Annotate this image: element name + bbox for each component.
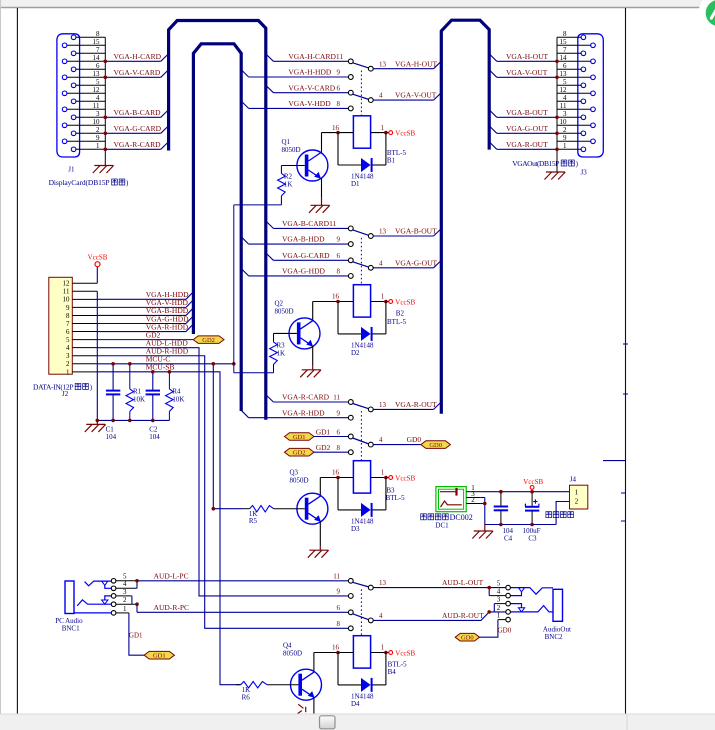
svg-text:8: 8 xyxy=(337,620,341,628)
wire VGA-H-HDD from J2 to bus xyxy=(97,290,193,299)
bottom horizontal scrollbar xyxy=(0,714,715,730)
svg-text:8: 8 xyxy=(563,30,567,38)
switch arm H xyxy=(353,63,369,68)
svg-text:8: 8 xyxy=(337,100,341,108)
resistor R3 1K xyxy=(270,333,285,372)
svg-text:6: 6 xyxy=(337,252,341,260)
switch arm R xyxy=(353,404,369,409)
svg-text:1: 1 xyxy=(381,644,385,652)
wire VGA-G-OUT to J3 xyxy=(489,124,557,133)
svg-text:1: 1 xyxy=(381,293,385,301)
wire Q4 emitter xyxy=(313,697,315,714)
wire transistor drive vertical xyxy=(233,205,235,373)
svg-text:10: 10 xyxy=(93,118,101,126)
svg-text:11: 11 xyxy=(333,394,340,402)
power flag GD1 xyxy=(285,433,315,441)
relay coil BTL-5 B2 xyxy=(313,285,407,326)
svg-text:AUD-R-OUT: AUD-R-OUT xyxy=(442,611,484,620)
power flag GD1 at BNC1 xyxy=(144,651,174,659)
svg-text:R3: R3 xyxy=(277,342,286,350)
wire AUD-R-HDD from J2 pin3 down to audio switch xyxy=(97,347,348,629)
ground xyxy=(545,171,566,180)
svg-text:VGA-H-HDD: VGA-H-HDD xyxy=(288,68,331,77)
capacitor C1 104 xyxy=(106,364,121,441)
svg-text:VGAOut(DB15P: VGAOut(DB15P xyxy=(512,159,559,168)
svg-text:4: 4 xyxy=(379,612,383,620)
wire AUD-L-HDD from J2 pin4 down to audio switch xyxy=(97,338,348,595)
svg-text:R5: R5 xyxy=(249,517,258,525)
svg-text:DC1: DC1 xyxy=(435,521,449,529)
svg-text:DisplayCard(DB15P: DisplayCard(DB15P xyxy=(49,178,110,187)
svg-text:8: 8 xyxy=(96,30,100,38)
svg-text:3: 3 xyxy=(563,110,567,118)
svg-text:2: 2 xyxy=(96,126,100,134)
svg-text:7: 7 xyxy=(563,46,567,54)
svg-text:5: 5 xyxy=(497,580,501,588)
svg-text:1: 1 xyxy=(96,142,100,150)
junction on J1 ground line row VGA-H-CARD xyxy=(104,60,108,64)
wire BNC1 sleeve to GD1 flag xyxy=(129,613,144,655)
svg-text:1: 1 xyxy=(66,368,70,376)
svg-text:3: 3 xyxy=(497,596,501,604)
svg-text:VGA-B-OUT: VGA-B-OUT xyxy=(506,108,548,117)
svg-text:8050D: 8050D xyxy=(282,146,301,154)
svg-text:1K: 1K xyxy=(284,181,293,189)
junction at J3 row VGA-V-OUT xyxy=(555,76,559,80)
wire Q2 base xyxy=(274,332,297,334)
svg-text:2: 2 xyxy=(471,496,475,504)
svg-text:3: 3 xyxy=(123,588,127,596)
wire VGA-R-OUT to J3 xyxy=(489,140,557,149)
label AudioOut BNC2 xyxy=(543,626,571,642)
power flag GD0 at BNC2 xyxy=(455,633,479,641)
svg-text:VGA-V-HDD: VGA-V-HDD xyxy=(288,99,331,108)
svg-text:VccSB: VccSB xyxy=(523,478,543,486)
svg-text:B4: B4 xyxy=(388,668,397,676)
svg-text:7: 7 xyxy=(96,46,100,54)
capacitor C3 100uF polarized xyxy=(523,492,541,543)
svg-text:3: 3 xyxy=(96,110,100,118)
svg-text:2: 2 xyxy=(575,498,579,506)
wire J2 pin11 to ground rail xyxy=(96,291,98,420)
sheet right border xyxy=(625,8,627,714)
svg-text:13: 13 xyxy=(379,579,387,587)
svg-text:VGA-H-CARD: VGA-H-CARD xyxy=(114,52,162,61)
svg-text:1: 1 xyxy=(575,489,579,497)
svg-text:J1: J1 xyxy=(68,165,75,173)
wire Q2 emitter xyxy=(312,346,314,366)
wire VGA-H-HDD 9 input xyxy=(241,68,353,80)
svg-text:5: 5 xyxy=(66,336,70,344)
svg-text:VGA-H-OUT: VGA-H-OUT xyxy=(395,59,437,68)
switch arm audio L xyxy=(353,582,369,587)
svg-text:2: 2 xyxy=(66,360,70,368)
junction relay B3 pin1 xyxy=(384,476,388,480)
svg-text:5: 5 xyxy=(96,78,100,86)
ground xyxy=(93,162,114,174)
label PC Audio BNC1 xyxy=(55,617,83,633)
mechanical link dotted xyxy=(360,71,362,116)
mechanical link dotted xyxy=(360,589,362,635)
svg-text:Q3: Q3 xyxy=(290,469,299,477)
svg-text:GD0: GD0 xyxy=(407,435,422,444)
wire VGA-V-HDD from J2 to bus xyxy=(97,298,193,307)
wire AUD-R-HDD input 8 xyxy=(337,620,354,631)
junction at J3 row VGA-G-OUT xyxy=(555,132,559,136)
svg-text:9: 9 xyxy=(337,69,341,77)
svg-text:9: 9 xyxy=(563,134,567,142)
bus from J1 VGA-CARD signals (left loop) xyxy=(169,21,266,420)
svg-text:1: 1 xyxy=(497,612,501,620)
wire Q1 base xyxy=(281,165,304,167)
switch output 4 AUD-R-OUT xyxy=(368,611,505,623)
svg-text:Q2: Q2 xyxy=(275,300,284,308)
svg-text:AUD-L-PC: AUD-L-PC xyxy=(154,571,189,580)
wire tick marks at sheet edge xyxy=(621,344,628,521)
svg-text:VGA-V-CARD: VGA-V-CARD xyxy=(288,83,335,92)
junction BNC2 R xyxy=(487,610,491,614)
junction C3 top xyxy=(530,490,534,494)
svg-text:B1: B1 xyxy=(387,157,396,165)
svg-text:VGA-R-OUT: VGA-R-OUT xyxy=(506,140,548,149)
svg-text:8: 8 xyxy=(337,268,341,276)
wire VccSB rail from DC1 pin1 to J4 xyxy=(480,491,569,493)
wire GD2 8 input xyxy=(314,443,353,455)
label DC1 xyxy=(421,513,473,530)
switch output 13 VGA-B-OUT xyxy=(368,227,441,239)
wire VGA-G-CARD 6 input xyxy=(266,251,353,263)
wire VGA-V-HDD 8 input xyxy=(241,99,353,111)
junction C4 bottom xyxy=(499,523,503,527)
power port VccSB at relay B1 xyxy=(389,131,393,135)
resistor R6 1K xyxy=(236,682,298,702)
wire VGA-R-HDD 9 input xyxy=(241,408,353,420)
svg-text:10: 10 xyxy=(63,296,71,304)
svg-text:VGA-V-OUT: VGA-V-OUT xyxy=(506,68,548,77)
svg-text:4: 4 xyxy=(379,259,383,267)
svg-text:B2: B2 xyxy=(396,310,405,318)
svg-text:R4: R4 xyxy=(172,388,181,396)
relay coil BTL-5 B1 xyxy=(322,116,407,165)
svg-text:8050D: 8050D xyxy=(290,477,309,485)
ground xyxy=(308,546,329,558)
wire VGA-B-CARD from J1 xyxy=(105,108,168,117)
switch arm audio R xyxy=(353,614,369,620)
svg-text:15: 15 xyxy=(560,38,568,46)
svg-text:VGA-V-OUT: VGA-V-OUT xyxy=(395,91,437,100)
svg-text:VGA-R-CARD: VGA-R-CARD xyxy=(282,393,330,402)
svg-text:1: 1 xyxy=(563,142,567,150)
svg-text:13: 13 xyxy=(379,228,387,236)
svg-text:14: 14 xyxy=(560,54,568,62)
svg-text:15: 15 xyxy=(93,38,101,46)
svg-text:9: 9 xyxy=(337,588,341,596)
ground xyxy=(300,366,321,378)
label DisplayCard(DB15P) xyxy=(49,178,129,187)
svg-text:C3: C3 xyxy=(528,535,537,543)
svg-text:AUD-L-OUT: AUD-L-OUT xyxy=(442,578,484,587)
wire ground rail under C1 R1 C2 R4 xyxy=(97,419,169,421)
junction BNC1 R xyxy=(135,602,139,606)
svg-text:VGA-G-CARD: VGA-G-CARD xyxy=(114,124,162,133)
junction relay B1 pin16 xyxy=(336,131,340,135)
svg-text:12: 12 xyxy=(560,86,568,94)
label J2 / DATA-IN(12P) xyxy=(33,383,93,399)
label J4 xyxy=(546,475,577,517)
connector J4 power header xyxy=(570,485,588,509)
junction rail C1 xyxy=(111,419,115,423)
svg-text:VGA-G-OUT: VGA-G-OUT xyxy=(395,258,437,267)
svg-text:J4: J4 xyxy=(570,475,577,483)
svg-text:4: 4 xyxy=(497,588,501,596)
junction relay B3 pin16 xyxy=(336,476,340,480)
svg-text:GD2: GD2 xyxy=(202,337,215,344)
wire AUD-L-HDD input 9 xyxy=(337,588,354,599)
switch arm V xyxy=(353,94,369,99)
svg-text:BTL-5: BTL-5 xyxy=(387,318,407,326)
svg-text:6: 6 xyxy=(337,428,341,436)
svg-text:11: 11 xyxy=(93,102,100,110)
svg-text:GD2: GD2 xyxy=(293,450,306,457)
svg-text:Q4: Q4 xyxy=(283,642,292,650)
wire VGA-R-HDD from J2 to bus xyxy=(97,322,193,331)
power port VccSB at J2 pin12 xyxy=(96,266,98,283)
power flag GD2 xyxy=(285,448,315,456)
transistor Q3 8050D xyxy=(290,469,328,525)
svg-text:R1: R1 xyxy=(133,388,142,396)
wire VGA-V-CARD 6 input xyxy=(266,83,353,95)
junction on J1 ground line row VGA-B-CARD xyxy=(104,116,108,120)
svg-text:13: 13 xyxy=(560,70,568,78)
svg-text:GD1: GD1 xyxy=(316,427,331,436)
left pane border xyxy=(0,0,2,714)
svg-text:7: 7 xyxy=(66,320,70,328)
wire R2 to MCU-C line xyxy=(234,204,282,206)
svg-text:VccSB: VccSB xyxy=(395,474,415,482)
junction relay B1 pin1 xyxy=(384,131,388,135)
switch output 4 VGA-G-OUT xyxy=(368,258,441,270)
junction relay B2 pin16 xyxy=(336,300,340,304)
junction MCU-C at R5 xyxy=(212,507,216,511)
svg-text:VGA-H-OUT: VGA-H-OUT xyxy=(506,52,548,61)
mechanical link dotted xyxy=(360,411,362,461)
wire AUD-R-PC input 6 xyxy=(137,603,353,615)
sheet left border xyxy=(16,8,18,714)
svg-text:VccSB: VccSB xyxy=(88,254,108,262)
bus to J3 VGA-OUT signals (right loop) xyxy=(441,20,489,414)
svg-text:9: 9 xyxy=(337,409,341,417)
svg-text:12: 12 xyxy=(93,86,101,94)
junction BNC1 L xyxy=(135,579,139,583)
svg-text:13: 13 xyxy=(93,70,101,78)
wire VGA-H-OUT to J3 xyxy=(489,52,557,61)
application top toolbar edge xyxy=(0,0,715,7)
svg-text:GD2: GD2 xyxy=(316,443,331,452)
svg-text:VccSB: VccSB xyxy=(395,298,415,306)
svg-text:BNC1: BNC1 xyxy=(62,625,80,633)
ground (partially repainted) xyxy=(298,704,306,713)
svg-text:4: 4 xyxy=(96,94,100,102)
junction C1 top xyxy=(111,362,115,366)
svg-text:GD1: GD1 xyxy=(129,631,143,639)
junction at J3 row VGA-R-OUT xyxy=(555,148,559,152)
svg-text:4: 4 xyxy=(563,94,567,102)
wire VGA-G-HDD from J2 to bus xyxy=(97,314,193,323)
svg-text:5: 5 xyxy=(563,78,567,86)
junction MCU-C branch xyxy=(212,362,216,366)
transistor Q1 8050D xyxy=(282,138,328,181)
svg-text:VGA-B-OUT: VGA-B-OUT xyxy=(395,227,437,236)
wire Q3 collector xyxy=(319,478,321,497)
junction on J1 ground line row VGA-G-CARD xyxy=(104,132,108,136)
junction C4 top xyxy=(499,490,503,494)
svg-text:VGA-G-CARD: VGA-G-CARD xyxy=(282,251,330,260)
svg-text:BTL-5: BTL-5 xyxy=(386,494,406,502)
svg-text:13: 13 xyxy=(379,401,387,409)
svg-text:GD0: GD0 xyxy=(429,442,442,449)
wire MCU-C from J2 pin2 xyxy=(97,355,234,364)
svg-text:AUD-R-PC: AUD-R-PC xyxy=(154,603,189,612)
wire VGA-V-OUT to J3 xyxy=(489,68,557,77)
svg-text:R6: R6 xyxy=(242,694,251,702)
junction rail left end xyxy=(96,419,100,423)
svg-text:11: 11 xyxy=(560,102,567,110)
svg-text:14: 14 xyxy=(93,54,101,62)
svg-text:2: 2 xyxy=(123,596,127,604)
svg-text:4: 4 xyxy=(379,92,383,100)
svg-text:D4: D4 xyxy=(351,700,360,708)
wire ground rail xyxy=(485,524,556,526)
svg-text:8050D: 8050D xyxy=(275,308,294,316)
wire Q2 collector xyxy=(312,302,314,322)
power port VccSB at relay B4 xyxy=(389,651,393,655)
svg-text:13: 13 xyxy=(379,60,387,68)
switch output 4 GD0 xyxy=(368,435,421,447)
wire VGA-G-HDD 8 input xyxy=(241,267,353,279)
connector J2 DATA-IN 12P (yellow header) xyxy=(49,277,98,376)
resistor R4 10K xyxy=(166,372,185,421)
connector BNC2 AudioOut jack xyxy=(489,580,562,622)
svg-text:104: 104 xyxy=(149,433,160,441)
svg-text:6: 6 xyxy=(337,604,341,612)
svg-text:8050D: 8050D xyxy=(283,650,302,658)
wire GD2 from J2 pin5 to flag xyxy=(97,330,193,339)
green status badge overlay xyxy=(699,0,715,34)
svg-text:10: 10 xyxy=(560,118,568,126)
svg-text:16: 16 xyxy=(332,124,340,132)
svg-text:D2: D2 xyxy=(351,349,360,357)
svg-text:J3: J3 xyxy=(581,169,588,177)
svg-text:BNC2: BNC2 xyxy=(545,633,563,641)
junction R1 top xyxy=(128,362,132,366)
svg-text:6: 6 xyxy=(337,84,341,92)
svg-text:12: 12 xyxy=(63,280,71,288)
power port VccSB at C3 xyxy=(531,490,533,492)
svg-text:VGA-R-CARD: VGA-R-CARD xyxy=(114,140,162,149)
switch output 13 AUD-L-OUT xyxy=(368,578,505,590)
transistor Q4 8050D xyxy=(283,642,322,701)
svg-text:16: 16 xyxy=(332,293,340,301)
svg-text:8: 8 xyxy=(337,444,341,452)
svg-text:10K: 10K xyxy=(133,396,145,404)
svg-text:VGA-B-CARD: VGA-B-CARD xyxy=(114,108,162,117)
svg-text:9: 9 xyxy=(337,236,341,244)
svg-text:1: 1 xyxy=(123,605,127,613)
svg-text:VccSB: VccSB xyxy=(395,649,415,657)
switch arm B xyxy=(353,230,369,236)
svg-text:Q1: Q1 xyxy=(282,138,291,146)
wire Q1 emitter xyxy=(321,178,323,198)
svg-text:VGA-B-HDD: VGA-B-HDD xyxy=(282,235,325,244)
wire GD1 6 input xyxy=(314,427,353,439)
svg-text:4: 4 xyxy=(379,436,383,444)
svg-text:11: 11 xyxy=(63,288,70,296)
svg-text:8: 8 xyxy=(66,312,70,320)
svg-text:16: 16 xyxy=(332,469,340,477)
connector J3 DB15 female (VGAOut) xyxy=(557,30,603,171)
svg-text:VGA-B-CARD11: VGA-B-CARD11 xyxy=(282,219,337,228)
svg-text:GD0: GD0 xyxy=(461,635,474,642)
diode D4 1N4148 xyxy=(338,653,386,708)
wire Q3 emitter xyxy=(319,521,321,546)
junction relay B2 pin1 xyxy=(384,300,388,304)
junction relay B4 pin16 xyxy=(336,651,340,655)
connector BNC1 PC Audio jack xyxy=(65,573,137,616)
power flag GD0 xyxy=(421,441,451,449)
svg-text:GD1: GD1 xyxy=(153,653,166,660)
svg-text:4: 4 xyxy=(66,344,70,352)
svg-text:VGA-G-HDD: VGA-G-HDD xyxy=(282,267,325,276)
svg-text:1: 1 xyxy=(381,469,385,477)
wire R3 to MCU-C line xyxy=(234,372,274,374)
wire VGA-R-CARD 11 input xyxy=(266,393,353,405)
switch output 4 VGA-V-OUT xyxy=(368,91,441,103)
wire Q4 collector xyxy=(313,653,315,673)
svg-text:3: 3 xyxy=(66,352,70,360)
junction at J3 row VGA-B-OUT xyxy=(555,116,559,120)
switch arm G xyxy=(353,262,369,267)
svg-text:9: 9 xyxy=(66,304,70,312)
svg-text:C4: C4 xyxy=(504,535,513,543)
junction C2 top xyxy=(151,370,155,374)
wire VGA-B-HDD from J2 to bus xyxy=(97,306,193,315)
wire rail to J4 pin2 xyxy=(556,502,569,525)
junction rail R1 xyxy=(128,419,132,423)
svg-text:VGA-R-HDD: VGA-R-HDD xyxy=(282,408,325,417)
svg-text:1: 1 xyxy=(381,124,385,132)
diode D2 1N4148 xyxy=(338,302,386,357)
svg-text:10K: 10K xyxy=(172,396,184,404)
svg-text:6: 6 xyxy=(96,62,100,70)
diode D3 1N4148 xyxy=(338,478,386,533)
switch output 13 VGA-H-OUT xyxy=(368,59,441,71)
wire VGA-H-CARD11 input xyxy=(266,52,353,64)
junction DC1 pin2 xyxy=(483,502,487,506)
svg-text:9: 9 xyxy=(96,134,100,142)
svg-text:VGA-R-OUT: VGA-R-OUT xyxy=(395,400,437,409)
diode D1 1N4148 xyxy=(338,133,386,188)
junction C3 bottom xyxy=(530,523,534,527)
capacitor C2 104 xyxy=(146,372,161,441)
junction rail C2 xyxy=(151,419,155,423)
resistor R2 1K xyxy=(278,166,293,205)
svg-text:16: 16 xyxy=(332,644,340,652)
svg-text:D3: D3 xyxy=(351,525,360,533)
svg-text:GD1: GD1 xyxy=(293,434,306,441)
wire VGA-B-HDD 9 input xyxy=(241,235,353,247)
svg-text:J2: J2 xyxy=(62,390,69,398)
wire VGA-B-OUT to J3 xyxy=(489,108,557,117)
